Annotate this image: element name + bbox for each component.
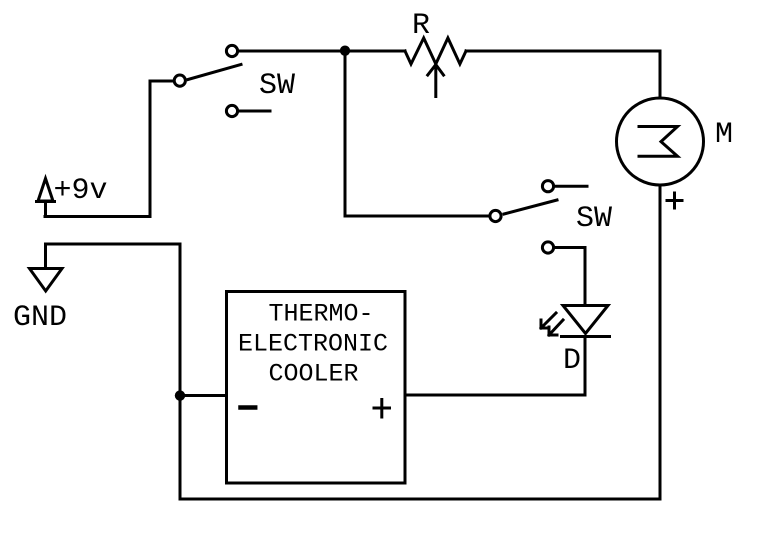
switch SW2 common contact <box>490 210 501 221</box>
cooler + terminal mark <box>374 400 390 418</box>
wire SW1 to resistor R <box>238 50 405 53</box>
ground GND wire <box>46 244 181 499</box>
wire motor bottom to bottom rail <box>180 185 660 499</box>
svg-text:SW: SW <box>576 202 612 236</box>
svg-text:M: M <box>715 118 733 152</box>
wire SW2 bottom throw to LED D <box>554 248 585 306</box>
svg-text:D: D <box>563 344 581 378</box>
switch SW2 arm <box>504 200 557 214</box>
resistor R (variable) zigzag <box>405 38 466 64</box>
cooler - terminal mark <box>241 405 256 410</box>
switch SW1 top throw contact <box>226 45 237 56</box>
node junction dot top <box>340 46 350 56</box>
svg-text:THERMO-: THERMO- <box>269 300 374 329</box>
resistor R wiper arrow <box>428 65 444 97</box>
wire junction down to switch SW2 <box>345 51 490 216</box>
switch SW1 common contact <box>174 75 185 86</box>
svg-text:SW: SW <box>259 69 295 103</box>
wire junction to cooler - terminal <box>180 394 225 397</box>
LED D light arrow 2 <box>549 320 563 335</box>
switch SW2 top throw contact <box>542 181 553 192</box>
motor M inner glyph <box>639 127 678 157</box>
wire LED to cooler + terminal <box>406 337 585 396</box>
switch SW2 bottom throw contact <box>542 242 553 253</box>
power +9v arrow symbol <box>37 179 55 217</box>
ground GND symbol <box>30 269 63 292</box>
svg-text:+9v: +9v <box>54 174 108 208</box>
svg-text:ELECTRONIC: ELECTRONIC <box>238 329 388 358</box>
LED D cathode bar <box>562 335 610 338</box>
svg-text:R: R <box>412 9 430 43</box>
svg-text:COOLER: COOLER <box>269 360 359 389</box>
node junction dot cooler minus <box>175 390 185 400</box>
wire +9v to switch SW1 common <box>45 81 173 217</box>
switch SW1 bottom throw contact <box>226 105 237 116</box>
LED D triangle (anode) <box>563 306 608 334</box>
switch SW1 arm <box>188 65 241 80</box>
switch SW1 bottom throw stub wire <box>238 110 270 113</box>
motor M circle <box>617 98 704 185</box>
thermo-electronic cooler box <box>227 292 406 484</box>
wire R to motor top <box>466 51 660 98</box>
LED D light arrow 1 <box>541 313 556 328</box>
switch SW2 top throw stub wire <box>554 185 587 188</box>
motor + polarity mark <box>667 193 682 208</box>
svg-text:GND: GND <box>13 301 67 335</box>
